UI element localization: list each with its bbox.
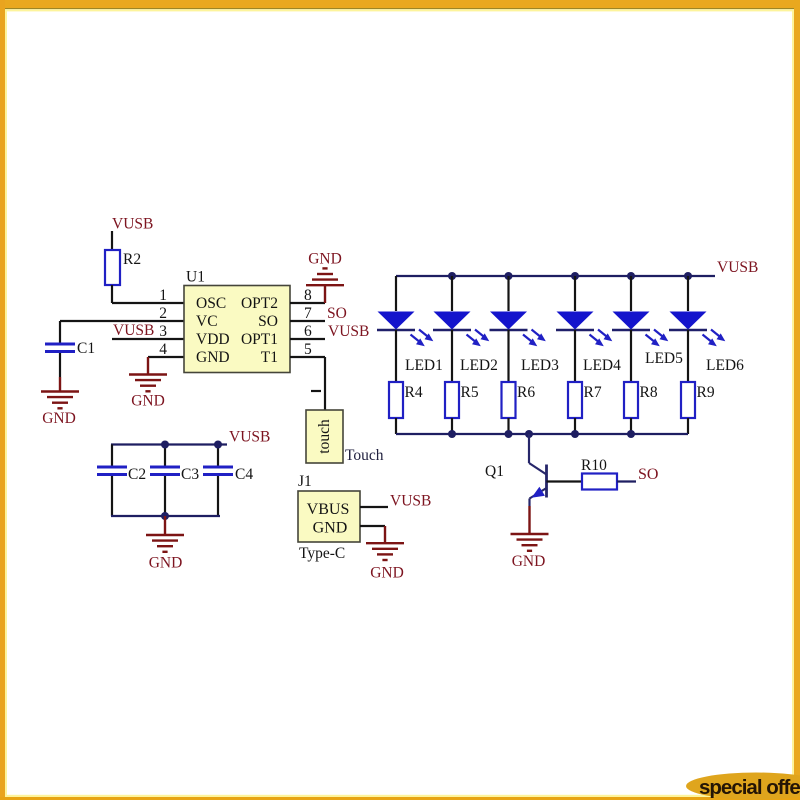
svg-text:special offer: special offer — [699, 776, 800, 799]
svg-text:LED6: LED6 — [706, 357, 744, 374]
svg-text:VUSB: VUSB — [229, 429, 270, 446]
svg-text:LED4: LED4 — [583, 357, 621, 374]
svg-text:GND: GND — [131, 393, 165, 410]
svg-text:R6: R6 — [517, 384, 535, 401]
svg-text:VBUS: VBUS — [307, 501, 350, 518]
svg-text:T1: T1 — [261, 349, 278, 366]
svg-text:LED3: LED3 — [521, 357, 559, 374]
svg-text:GND: GND — [196, 349, 230, 366]
svg-text:U1: U1 — [186, 269, 205, 286]
svg-text:LED5: LED5 — [645, 350, 683, 367]
svg-text:C4: C4 — [235, 466, 253, 483]
svg-text:5: 5 — [304, 341, 312, 358]
svg-text:Type-C: Type-C — [299, 545, 345, 562]
svg-text:C3: C3 — [181, 466, 199, 483]
svg-text:1: 1 — [159, 287, 167, 304]
svg-text:C1: C1 — [77, 340, 95, 357]
svg-text:VUSB: VUSB — [328, 323, 369, 340]
svg-text:C2: C2 — [128, 466, 146, 483]
svg-text:2: 2 — [159, 305, 167, 322]
svg-text:LED1: LED1 — [405, 357, 443, 374]
svg-text:GND: GND — [512, 553, 546, 570]
svg-text:SO: SO — [638, 466, 658, 483]
svg-text:VC: VC — [196, 313, 218, 330]
svg-text:R8: R8 — [640, 384, 658, 401]
svg-text:J1: J1 — [298, 473, 312, 490]
svg-text:R5: R5 — [461, 384, 479, 401]
svg-text:Q1: Q1 — [485, 463, 504, 480]
svg-text:OPT1: OPT1 — [241, 331, 278, 348]
svg-text:GND: GND — [313, 520, 348, 537]
svg-text:8: 8 — [304, 287, 312, 304]
svg-text:R7: R7 — [584, 384, 602, 401]
svg-text:Touch: Touch — [345, 447, 384, 464]
svg-text:VUSB: VUSB — [113, 322, 154, 339]
svg-text:VUSB: VUSB — [390, 493, 431, 510]
svg-text:GND: GND — [370, 565, 404, 582]
svg-text:3: 3 — [159, 323, 167, 340]
svg-text:OSC: OSC — [196, 295, 226, 312]
svg-text:R10: R10 — [581, 457, 607, 474]
svg-text:R4: R4 — [405, 384, 423, 401]
svg-text:SO: SO — [327, 305, 347, 322]
svg-text:4: 4 — [159, 341, 167, 358]
svg-text:VDD: VDD — [196, 331, 230, 348]
svg-text:LED2: LED2 — [460, 357, 498, 374]
svg-text:GND: GND — [149, 555, 183, 572]
svg-text:7: 7 — [304, 305, 312, 322]
svg-text:VUSB: VUSB — [112, 216, 153, 233]
svg-text:SO: SO — [258, 313, 278, 330]
svg-text:VUSB: VUSB — [717, 259, 758, 276]
svg-text:R2: R2 — [123, 251, 141, 268]
svg-text:GND: GND — [308, 251, 342, 268]
svg-text:R9: R9 — [697, 384, 715, 401]
svg-text:OPT2: OPT2 — [241, 295, 278, 312]
svg-text:touch: touch — [316, 419, 333, 454]
svg-text:6: 6 — [304, 323, 312, 340]
svg-text:GND: GND — [42, 410, 76, 427]
